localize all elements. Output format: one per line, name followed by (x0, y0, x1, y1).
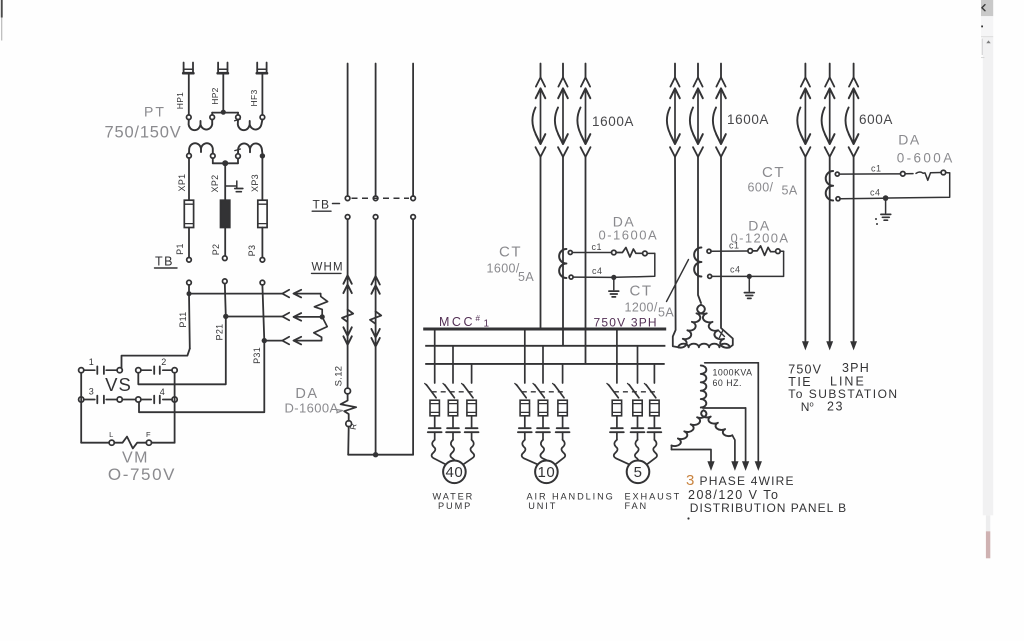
svg-text:1000KVA: 1000KVA (713, 368, 753, 378)
drawout fuse clip HP1 (183, 63, 193, 74)
motor starter taps exhaust fan (617, 330, 655, 383)
ground (feeder 2 CT) (744, 279, 754, 299)
drawout circuit breaker 52-2c (713, 64, 726, 157)
switch VS contact 4 (136, 396, 178, 404)
wire P11 to contact 1 (122, 349, 190, 368)
label TB- (meter terminal block) (312, 198, 339, 212)
bus phase B (425, 345, 665, 347)
svg-text:c4: c4 (730, 265, 741, 275)
svg-text:O-750V: O-750V (108, 465, 176, 484)
label c1 (feeder 1) (592, 242, 603, 252)
contactor contacts air handling unit (518, 416, 570, 440)
svg-text:40: 40 (446, 464, 464, 481)
PT secondary winding 2 (235, 143, 263, 153)
node WHM bottom junction (373, 452, 378, 457)
drawout fuse clip HF3 (257, 63, 267, 74)
label DA (tie feeder) (898, 132, 920, 148)
drawout circuit breaker 52-1a (532, 64, 545, 157)
wire WHM line 1 upper (347, 64, 349, 196)
svg-text:P31: P31 (252, 347, 262, 364)
drawout circuit breaker 52-2a (667, 64, 680, 157)
svg-text:VM: VM (122, 450, 149, 467)
svg-text:o: o (810, 400, 815, 409)
svg-text:#: # (476, 314, 481, 323)
page edge tick top-left (1, 0, 3, 41)
contactor contacts water pump (428, 416, 479, 440)
svg-text:c4: c4 (592, 266, 603, 276)
drawout circuit breaker 52-1c (577, 64, 590, 157)
svg-text:600A: 600A (859, 112, 893, 127)
label VS (105, 374, 132, 395)
svg-text:5A: 5A (782, 184, 798, 198)
PT secondary terminals (187, 153, 265, 158)
pin 3 (89, 387, 95, 397)
drawout circuit breaker 52-3c (846, 64, 859, 157)
ground (feeder 1 CT) (609, 280, 619, 297)
wire tie line phase B (827, 157, 833, 350)
label WHM (312, 262, 344, 274)
transformer T1 secondary winding (lambda left) (672, 410, 707, 449)
wire WHM bottom tie (348, 454, 413, 456)
wire P31 to contact 4 (139, 343, 264, 412)
svg-text:WATER: WATER (433, 492, 475, 502)
transformer T1 secondary winding (lambda right) (701, 410, 732, 436)
svg-text:750V 3PH: 750V 3PH (594, 316, 658, 330)
svg-text:0-1600A: 0-1600A (599, 228, 659, 243)
svg-text:WHM: WHM (312, 262, 344, 274)
fuse P2 (filled) (221, 200, 230, 227)
label P21 (214, 324, 224, 341)
wire secondary neutral (672, 450, 712, 462)
drawout circuit breaker 52-3b (822, 64, 835, 157)
wire WHM line 2 with meter arrows (370, 219, 381, 455)
label TIE LINE (788, 375, 866, 390)
disconnect blades air handling unit (515, 383, 564, 397)
svg-text:208/120 V To: 208/120 V To (688, 488, 779, 502)
label XP1 (177, 174, 187, 192)
label c4 (feeder 1) (592, 266, 603, 276)
plug arrow 2 (294, 313, 321, 321)
motor 5 exhaust fan (627, 461, 650, 484)
leader line CT 1200/5A (667, 260, 689, 302)
TB terminals WHM line 3 (411, 196, 416, 219)
wire tie line phase C (851, 157, 857, 350)
label CT 1200/5A (625, 283, 675, 320)
wire voltmeter tap 1 with female contact (191, 290, 289, 298)
meter VM terminals L F (109, 430, 151, 445)
svg-text:VS: VS (105, 374, 132, 395)
svg-text:D-1600A: D-1600A (285, 401, 339, 416)
fuses water pump (430, 400, 476, 416)
label c1 (tie feeder) (871, 164, 882, 174)
svg-text:XP3: XP3 (250, 174, 260, 192)
label PT (144, 104, 166, 120)
wire P21 drop (225, 284, 226, 317)
svg-text:4: 4 (160, 387, 166, 397)
label 600A (tie feeder) (859, 112, 893, 127)
motor 40 water pump (443, 461, 466, 484)
arrowheads to distribution panel (708, 462, 762, 471)
svg-text:TB: TB (155, 255, 174, 269)
wire feeder 2 phase A to delta (673, 157, 679, 347)
label 3 PHASE 4WIRE (686, 472, 795, 489)
label DA (feeder 2) (748, 218, 770, 234)
wire WHM line 2 upper (375, 64, 377, 196)
TB terminals row 1 (187, 256, 265, 262)
bus phase C (425, 363, 665, 365)
label No 23 (801, 400, 844, 415)
label 750V 3PH tie line (788, 361, 870, 377)
label P1 (175, 243, 185, 255)
shunt resistor (DA shunt) (341, 394, 357, 421)
svg-text:XP2: XP2 (210, 175, 220, 193)
terminal S.12 (345, 388, 351, 394)
wire secondary phase a (732, 435, 735, 462)
svg-text:AIR HANDLING: AIR HANDLING (527, 492, 615, 502)
TB terminals WHM line 2 (373, 196, 378, 219)
svg-text:P1: P1 (175, 243, 185, 255)
wire XP3 (261, 158, 263, 200)
wire secondary phase b (745, 408, 747, 462)
ground on XP2 secondary (225, 181, 243, 192)
wire VS mid row connector (122, 399, 135, 401)
wire secondary phase c (757, 363, 759, 462)
stray mark (687, 517, 689, 519)
PT primary winding 1 (189, 120, 213, 131)
label D-1600A (285, 401, 343, 416)
svg-text:HF3: HF3 (249, 90, 259, 107)
label HP2 (210, 87, 220, 104)
svg-text:1200/: 1200/ (625, 301, 658, 315)
wire WHM line 3 lower (412, 219, 414, 455)
svg-text:HP2: HP2 (210, 87, 220, 104)
bus MCC #1 phase A (423, 328, 666, 331)
svg-text:DISTRIBUTION PANEL B: DISTRIBUTION PANEL B (690, 501, 847, 515)
svg-text:HP1: HP1 (175, 92, 185, 109)
svg-text:5A: 5A (518, 270, 534, 284)
svg-text:600/: 600/ (748, 181, 774, 195)
wire P21 to contact 2 (138, 319, 226, 384)
PT primary winding 2 (235, 119, 263, 130)
zigzag connector between plug arrows (314, 294, 328, 341)
wire HF3 lead (261, 74, 263, 115)
label 0-1200A (feeder 2) (731, 231, 790, 246)
svg-text:c4: c4 (870, 188, 881, 198)
node P21 junction (223, 314, 228, 319)
svg-text:0-1200A: 0-1200A (731, 231, 790, 246)
svg-text:750/150V: 750/150V (105, 124, 182, 142)
svg-text:S.12: S.12 (333, 366, 344, 387)
wire HP1 lead (188, 74, 190, 115)
overload coils air handling unit (522, 440, 566, 465)
node: PT primary center tap junction (212, 110, 238, 115)
plug arrow 1 (294, 290, 321, 298)
svg-text:3PH: 3PH (842, 361, 870, 375)
svg-text:L: L (109, 430, 114, 439)
svg-text:1600A: 1600A (592, 114, 634, 129)
svg-text:PT: PT (144, 104, 166, 120)
CT secondary terminals C1 C4 (feeder 2) (707, 249, 712, 278)
wire ammeter return (tie feeder) (840, 173, 950, 199)
ground (tie feeder CT) (875, 201, 891, 225)
svg-text:P2: P2 (211, 244, 221, 256)
wire HP2 lead (222, 74, 224, 110)
svg-text:CT: CT (630, 283, 653, 300)
CT secondary terminals C1 C4 (feeder 1) (568, 251, 573, 280)
wire VM bottom rail left (81, 442, 109, 444)
label air handling unit (527, 492, 615, 512)
svg-text:0-600A: 0-600A (897, 151, 955, 166)
wire XP1 (188, 158, 190, 200)
svg-text:P11: P11 (178, 311, 188, 327)
motor 10 air handling unit (535, 461, 558, 484)
svg-text:FAN: FAN (625, 501, 649, 511)
motor starter taps water pump (435, 330, 472, 383)
wire P3 fuse to TB (261, 228, 263, 258)
scrollbar corner button (981, 0, 993, 16)
svg-text:MCC: MCC (439, 315, 475, 329)
node: PT secondary center tap junction XP2 (213, 158, 238, 166)
disconnect blades water pump (425, 383, 473, 397)
label c4 (tie feeder) (870, 188, 881, 198)
wire VS left rail (80, 373, 82, 443)
node plug arrow junction (320, 314, 325, 319)
svg-text:2: 2 (161, 357, 167, 367)
motor starter taps air handling unit (525, 330, 563, 383)
label Distribution Panel B (690, 501, 847, 515)
svg-text:CT: CT (499, 244, 522, 261)
svg-text:PUMP: PUMP (438, 501, 472, 511)
contactor contacts exhaust fan (610, 416, 661, 440)
label MCC #1 (439, 314, 490, 330)
label 0-1600A (feeder 1) (599, 228, 659, 243)
label exhaust fan (625, 492, 682, 512)
wire P11 drop (188, 285, 191, 349)
svg-text:c1: c1 (871, 164, 882, 174)
label 1600A (feeder 2) (727, 112, 769, 127)
wire feeder 2 phase B to delta apex (698, 157, 701, 303)
TB terminals row 2 (187, 279, 265, 285)
label DA (295, 386, 318, 402)
PT primary terminals (187, 115, 265, 120)
wire tie line phase A (802, 157, 808, 350)
wire P31 drop (262, 285, 264, 341)
pin 1 (89, 357, 95, 367)
wire WHM line 1 lower (347, 427, 350, 455)
overload coils exhaust fan (614, 440, 657, 465)
svg-text:3: 3 (89, 387, 95, 397)
label 750V 3PH (594, 316, 658, 330)
disconnect blades exhaust fan (607, 383, 656, 397)
svg-text:CT: CT (762, 164, 785, 181)
fuse P1 (184, 200, 193, 227)
label P3 (247, 245, 257, 257)
label CT 600/5A (748, 164, 798, 198)
svg-text:60 HZ.: 60 HZ. (713, 378, 742, 388)
label 1000KVA 60Hz (713, 368, 753, 389)
label S.12 (333, 366, 344, 387)
wire P1 fuse to TB (188, 228, 190, 258)
plug arrow 3 (294, 337, 321, 345)
label XP2 (210, 175, 220, 193)
wire ammeter return (feeder 1) (573, 253, 655, 277)
label c1 (feeder 2) (729, 241, 740, 251)
label 750/150V (105, 124, 182, 142)
node C4 ground junction (tie feeder) (883, 195, 889, 201)
svg-text:P3: P3 (247, 245, 257, 257)
svg-text:c1: c1 (592, 242, 603, 252)
svg-text:F: F (146, 430, 151, 439)
svg-text:XP1: XP1 (177, 174, 187, 192)
fuse P3 (258, 200, 267, 227)
label water pump (433, 492, 475, 512)
svg-text:UNIT: UNIT (528, 501, 557, 511)
label HF3 (249, 90, 259, 107)
label c4 (feeder 2) (730, 265, 741, 275)
feeder drop phase B from breaker 1 (562, 157, 564, 345)
dashed TB link (352, 197, 410, 199)
svg-text:EXHAUST: EXHAUST (625, 492, 682, 502)
wire C1 (feeder 1) (572, 252, 611, 254)
svg-text:10: 10 (538, 464, 556, 481)
label P2 (211, 244, 221, 256)
drawout circuit breaker 52-3a (797, 64, 810, 157)
label 0-600A (tie feeder) (897, 151, 955, 166)
scrollbar track (981, 37, 993, 515)
svg-text:5: 5 (634, 464, 643, 481)
transformer T1 secondary winding (vertical) (701, 366, 707, 408)
drawout circuit breaker 52-1b (555, 64, 568, 157)
label To SUBSTATION (788, 387, 898, 401)
pin 4 (160, 387, 166, 397)
svg-text:5A: 5A (658, 306, 674, 320)
label 1600A (feeder 1) (592, 114, 634, 129)
pin 2 (161, 357, 167, 367)
label 0-750V (108, 465, 176, 484)
wire WHM line 1 with meter arrows (342, 219, 353, 388)
label DA (feeder 1) (613, 214, 635, 230)
label 208/120V To (688, 488, 779, 502)
switch VS contact 2 (136, 366, 178, 374)
svg-text:1: 1 (89, 357, 95, 367)
feeder drop phase A from breaker 1 (540, 157, 542, 328)
svg-text:TB: TB (313, 198, 331, 212)
transformer T1 delta primary winding (678, 305, 729, 348)
ammeter element DA 0-600A (901, 170, 950, 180)
wire WHM line 3 upper (412, 64, 414, 196)
CT 1600/5A on feeder 1 (559, 249, 566, 278)
wire voltmeter tap 2 with female contact (228, 313, 289, 321)
wire XP2 (224, 166, 226, 201)
svg-text:23: 23 (827, 400, 844, 414)
svg-text:DA: DA (898, 132, 920, 148)
label VM (122, 450, 149, 467)
drawout circuit breaker 52-2b (690, 64, 703, 157)
overload coils water pump (432, 440, 475, 465)
CT 600/5A on tie feeder (826, 171, 833, 201)
switch VS contact 3 (79, 396, 123, 404)
switch VS contact 1 (79, 366, 123, 374)
label P31 (252, 347, 262, 364)
node P11 junction (187, 291, 192, 296)
svg-text:1600A: 1600A (727, 112, 769, 127)
label TB (left terminal block) (155, 255, 178, 269)
node C4 ground junction (feeder 1) (611, 275, 616, 280)
ammeter element DA 0-1200A (748, 246, 784, 256)
wire voltmeter tap 3 with female contact (266, 337, 289, 345)
PT secondary winding 1 (189, 143, 213, 153)
node P31 junction (262, 338, 267, 343)
transformer T1 secondary box 1000KVA (703, 363, 759, 408)
label P11 (178, 311, 188, 327)
label HP1 (175, 92, 185, 109)
node C4 ground junction (feeder 2) (747, 274, 752, 279)
scrollbar lower sliver (986, 515, 990, 558)
wire feeder 2 phase C to delta (721, 157, 733, 347)
svg-text:3: 3 (686, 472, 694, 489)
wire P2 fuse to TB (224, 228, 226, 256)
svg-text:P21: P21 (214, 324, 224, 341)
wire ammeter return (feeder 2) (712, 251, 784, 276)
scrollbar upper strip (981, 16, 993, 37)
TB terminals WHM line 1 (345, 196, 350, 219)
CT 1200/5A on feeder 2 (694, 248, 701, 277)
svg-text:1: 1 (484, 319, 490, 330)
CT secondary terminals C1 C4 (tie feeder) (835, 172, 840, 201)
wire C1 (feeder 2) (711, 250, 748, 252)
wire VS right rail (174, 373, 176, 443)
meter VM element zigzag (114, 437, 174, 449)
svg-text:1600/: 1600/ (487, 262, 520, 276)
label CT 1600/5A (487, 244, 535, 285)
terminal R (346, 421, 359, 431)
ammeter element DA 0-1600A (612, 248, 655, 258)
svg-text:PHASE 4WIRE: PHASE 4WIRE (700, 474, 795, 488)
drawout fuse clip HP2 (218, 63, 228, 74)
fuses air handling unit (520, 400, 567, 416)
label XP3 (250, 174, 260, 192)
feeder drop phase C from breaker 1 (585, 157, 587, 363)
wire C1 (tie feeder) (839, 173, 900, 175)
fuses exhaust fan (612, 400, 659, 416)
